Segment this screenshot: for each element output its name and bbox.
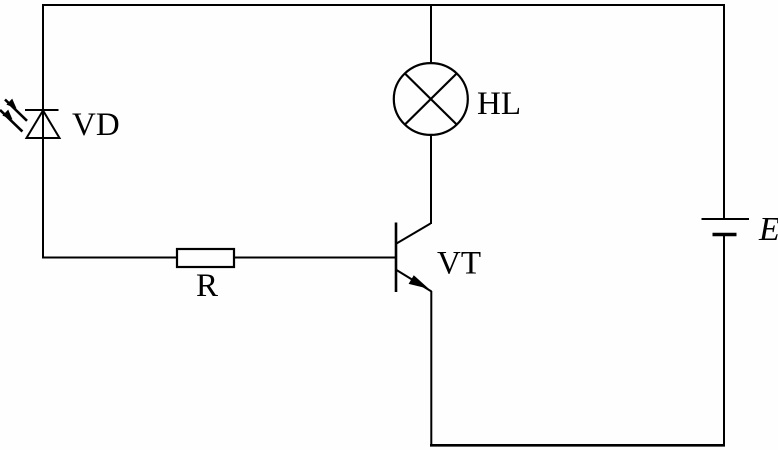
wire base horizontal left: [42, 257, 176, 259]
svg-text:VT: VT: [437, 246, 481, 282]
transistor VT: [396, 223, 432, 293]
wire right vertical lower: [723, 235, 725, 447]
wire lamp top vertical: [430, 4, 432, 63]
resistor R: [177, 249, 234, 267]
svg-text:E: E: [758, 211, 778, 248]
photodiode VD: [0, 99, 60, 138]
battery E: [702, 219, 750, 235]
svg-text:R: R: [196, 268, 218, 304]
wire base horizontal right: [235, 257, 395, 259]
wire collector vertical: [430, 136, 432, 224]
lamp HL: [394, 63, 468, 135]
svg-text:VD: VD: [72, 107, 120, 143]
wire left vertical: [42, 4, 44, 258]
wire right vertical upper: [723, 4, 725, 219]
wire top horizontal: [42, 4, 724, 6]
svg-text:HL: HL: [477, 86, 521, 122]
wire emitter vertical: [430, 291, 432, 446]
wire bottom horizontal: [430, 444, 725, 447]
